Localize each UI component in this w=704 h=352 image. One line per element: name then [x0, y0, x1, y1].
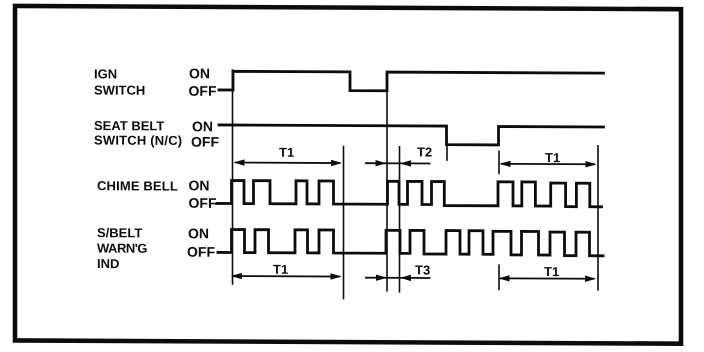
label S/BELT WARN'G IND: [97, 225, 147, 271]
svg-text:SWITCH (N/C): SWITCH (N/C): [94, 133, 182, 148]
svg-text:SEAT BELT: SEAT BELT: [94, 118, 164, 133]
svg-text:T1: T1: [279, 145, 294, 160]
dimension arrow T2: [366, 160, 430, 167]
label SEAT BELT SWITCH (N/C): [94, 118, 182, 148]
reference dash below seat belt fall: [446, 146, 448, 160]
dimension arrow T1 upper-right: [500, 161, 597, 168]
wire S/BELT WARN'G IND waveform: [218, 229, 603, 255]
dimension arrow T3: [366, 274, 430, 281]
svg-text:T3: T3: [415, 262, 430, 277]
reference line at chime restart: [399, 147, 401, 292]
reference line right end: [597, 146, 599, 290]
svg-text:ON: ON: [189, 177, 210, 193]
wire SEAT BELT SWITCH waveform: [219, 125, 604, 145]
svg-text:T1: T1: [273, 262, 288, 277]
dimension arrow T1 lower-left: [231, 273, 342, 280]
reference line at first IGN rise: [232, 70, 234, 284]
wire CHIME BELL waveform: [217, 180, 602, 206]
svg-text:SWITCH: SWITCH: [94, 83, 145, 98]
wire IGN SWITCH waveform: [219, 71, 604, 92]
svg-text:T2: T2: [417, 144, 432, 159]
svg-text:OFF: OFF: [187, 244, 215, 260]
svg-text:WARN'G: WARN'G: [97, 241, 147, 256]
svg-text:IGN: IGN: [94, 66, 117, 81]
svg-text:S/BELT: S/BELT: [97, 225, 142, 240]
reference bars at seat belt re-close: [498, 151, 500, 289]
reference line at second IGN rise: [386, 91, 388, 291]
svg-text:IND: IND: [97, 256, 119, 271]
svg-text:T1: T1: [545, 150, 560, 165]
reference line at end of first T1: [343, 147, 345, 299]
svg-text:OFF: OFF: [189, 83, 217, 99]
label IGN SWITCH: [94, 66, 145, 97]
svg-text:ON: ON: [188, 225, 209, 241]
svg-text:ON: ON: [192, 118, 213, 134]
svg-text:OFF: OFF: [189, 195, 217, 211]
svg-text:T1: T1: [544, 264, 559, 279]
svg-text:ON: ON: [189, 65, 210, 81]
dimension arrow T1 lower-right: [499, 275, 597, 282]
svg-text:CHIME BELL: CHIME BELL: [97, 178, 178, 193]
dimension arrow T1 upper-left: [234, 159, 343, 166]
svg-text:OFF: OFF: [191, 134, 219, 150]
